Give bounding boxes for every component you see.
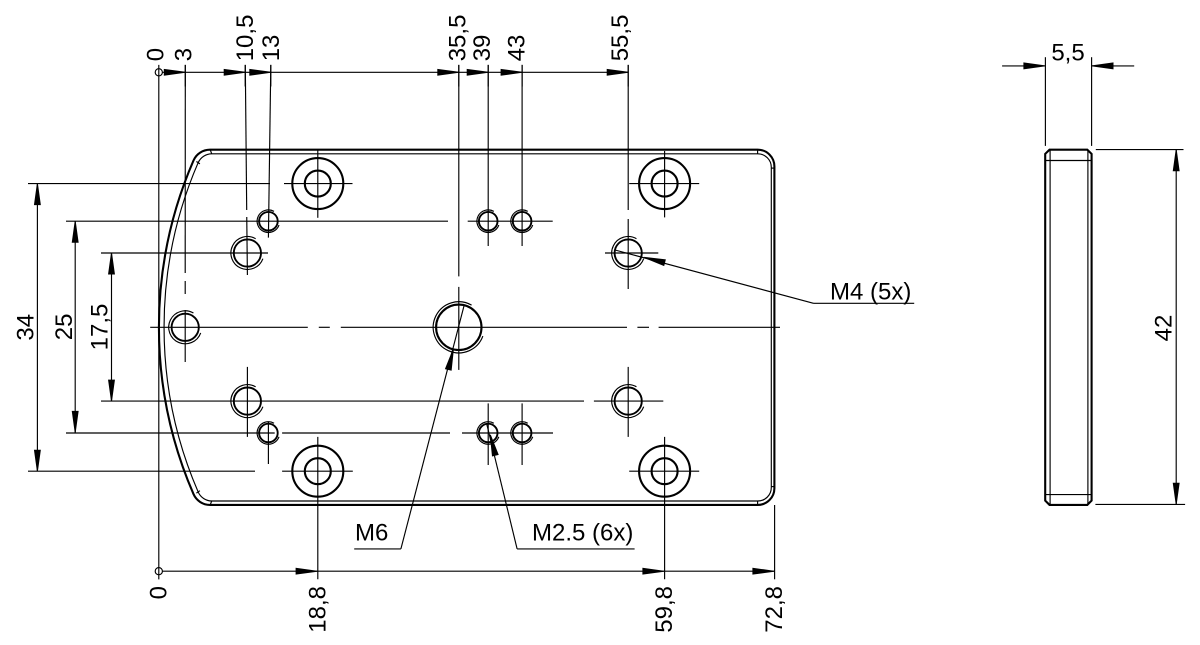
bottom dimension origin circle (155, 568, 162, 575)
M4 hole upper-left (231, 236, 263, 269)
label 3 (171, 48, 198, 61)
label M4 (5x) with underline (814, 278, 915, 305)
dimension 42 line (1173, 150, 1179, 505)
centerline row 34 bottom (28, 470, 699, 472)
M2.5 hole bottom-single (257, 422, 279, 445)
svg-text:34: 34 (12, 314, 39, 341)
plate outline (outer, front view) (159, 150, 774, 505)
dimension 34 line (35, 184, 41, 472)
centerline row 17.5 top (101, 252, 658, 254)
corner tick top-left (196, 150, 211, 164)
centerline row 25 bottom (66, 432, 553, 434)
dimension 5,5 line (1002, 63, 1134, 69)
svg-text:39: 39 (469, 35, 496, 62)
centerline row 25 top (66, 220, 553, 222)
label 25 (51, 314, 78, 341)
label M2.5 (6x) with underline (517, 520, 635, 549)
M4 lower-left vertical centerline (246, 367, 248, 437)
extension lines 42 (1095, 150, 1185, 505)
centerline row 17.5 bottom (101, 400, 663, 402)
leader M6 (401, 305, 464, 549)
label 59,8 (651, 586, 678, 633)
centerline row 34 top (28, 183, 699, 185)
M4 hole lower-left (231, 385, 263, 418)
M2.5 hole bottom-pair-right (511, 422, 533, 445)
extension line 72,8 (plate right edge) (774, 505, 776, 579)
top dimension arrow at x=628.2 (607, 69, 628, 75)
side view inner edge left (1049, 150, 1051, 504)
M2.5 hole top-pair-left (477, 210, 499, 233)
M4 hole upper-right (612, 236, 644, 269)
svg-text:17,5: 17,5 (87, 304, 114, 351)
corner tick bottom-left (196, 491, 211, 505)
counterbore hole bottom-right (639, 446, 690, 497)
M4 lower-right vertical centerline (627, 367, 629, 437)
top tick 10,5 (244, 65, 246, 87)
dimension 17,5 line (109, 253, 115, 401)
extension line 13 / M2.5 top-single centerline (268, 65, 270, 238)
top tick 3 (184, 65, 186, 87)
counterbore top-left vertical centerline (317, 150, 319, 218)
M2.5 hole bottom-pair-left (477, 422, 499, 445)
label 17,5 (87, 304, 114, 351)
top dimension arrow at x=245.2 (224, 69, 245, 75)
corner tick bottom-right (758, 487, 775, 505)
label 42 (1151, 315, 1178, 342)
M2.5 bottom-pair-right vertical centerline (521, 403, 523, 465)
svg-text:42: 42 (1151, 315, 1178, 342)
leader M2.5 (487, 424, 517, 549)
svg-text:M4 (5x): M4 (5x) (830, 278, 911, 305)
counterbore hole top-right (639, 158, 690, 209)
bottom dimension arrow at x=774.6 (753, 568, 774, 574)
svg-text:0: 0 (143, 48, 170, 61)
top dimension arrow at x=270.8 (250, 69, 271, 75)
M2.5 hole top-pair-right (511, 210, 533, 233)
bottom dimension arrow at x=317.8 (296, 568, 317, 574)
counterbore top-right vertical centerline (664, 151, 666, 217)
bottom dimension arrow at x=664.6 (643, 568, 664, 574)
top tick 13 (270, 65, 272, 87)
counterbore hole bottom-left (292, 446, 343, 497)
svg-text:35,5: 35,5 (445, 15, 472, 62)
leader M4 (615, 250, 814, 303)
svg-text:10,5: 10,5 (232, 15, 259, 62)
svg-text:13: 13 (258, 35, 285, 62)
svg-text:M6: M6 (355, 520, 388, 547)
svg-text:25: 25 (51, 314, 78, 341)
extension line 18,8 / counterbore bottom-left centerline (317, 437, 319, 579)
label 5,5 (1051, 40, 1084, 67)
M4 hole lower-right (612, 385, 644, 418)
top dimension arrow at x=458.8 (438, 69, 459, 75)
label 0 (bottom) (145, 586, 172, 599)
M2.5 hole top-single (257, 210, 279, 233)
extension line 0 (datum) (158, 65, 160, 580)
top dimension origin circle (155, 69, 162, 76)
extension line 35,5 / M6 centerline (458, 65, 460, 370)
svg-text:5,5: 5,5 (1051, 40, 1084, 67)
extension line 55,5 / M4 upper-right centerline (627, 65, 629, 289)
label 34 (12, 314, 39, 341)
label 39 (469, 35, 496, 62)
M2.5 bottom-pair-left vertical centerline (487, 403, 489, 465)
side view outline (1045, 150, 1091, 505)
label M6 with underline (354, 520, 401, 549)
svg-text:55,5: 55,5 (607, 15, 634, 62)
extension line 43 / M2.5 pair-right centerline (521, 65, 523, 246)
plate chamfer edge (inner contour) (164, 154, 771, 501)
label 18,8 (304, 586, 331, 633)
dimension 25 line (72, 221, 78, 432)
label 43 (504, 35, 531, 62)
side view chamfer line top (1045, 160, 1091, 162)
label 13 (258, 35, 285, 62)
top dimension line (162, 71, 628, 73)
side view inner edge right (1087, 150, 1089, 504)
extension line 59,8 / counterbore bottom-right centerline (664, 437, 666, 579)
M2.5 bottom-single vertical centerline (267, 422, 269, 464)
counterbore hole top-left (292, 158, 343, 209)
M4 hole left-middle (169, 311, 201, 344)
extension line 10,5 / M4 upper-left centerline (245, 65, 247, 275)
label 35,5 (445, 15, 472, 62)
svg-text:3: 3 (171, 48, 198, 61)
label 10,5 (232, 15, 259, 62)
label 55,5 (607, 15, 634, 62)
label 0 (top) (143, 48, 170, 61)
top tick 55,5 (627, 65, 629, 87)
side view chamfer line bottom (1045, 494, 1091, 496)
main horizontal centerline (150, 326, 780, 328)
svg-text:18,8: 18,8 (304, 586, 331, 633)
top tick 39 (487, 65, 489, 87)
top dimension arrow at x=488.2 (467, 69, 488, 75)
label 72,8 (761, 586, 788, 633)
extension line 3 / M4 left centerline (184, 65, 186, 362)
extension line 39 / M2.5 pair-left centerline (487, 65, 489, 246)
corner tick top-right (758, 150, 775, 168)
svg-text:43: 43 (504, 35, 531, 62)
top dimension arrow at x=185.3 (164, 69, 185, 75)
bottom dimension line (162, 570, 774, 572)
top tick 43 (521, 65, 523, 87)
svg-text:0: 0 (145, 586, 172, 599)
svg-text:M2.5 (6x): M2.5 (6x) (532, 520, 633, 547)
svg-text:72,8: 72,8 (761, 586, 788, 633)
top dimension arrow at x=522.1 (501, 69, 522, 75)
svg-text:59,8: 59,8 (651, 586, 678, 633)
top tick 35,5 (458, 65, 460, 87)
extension lines 5,5 (1045, 57, 1091, 146)
M6 center hole (433, 302, 483, 353)
